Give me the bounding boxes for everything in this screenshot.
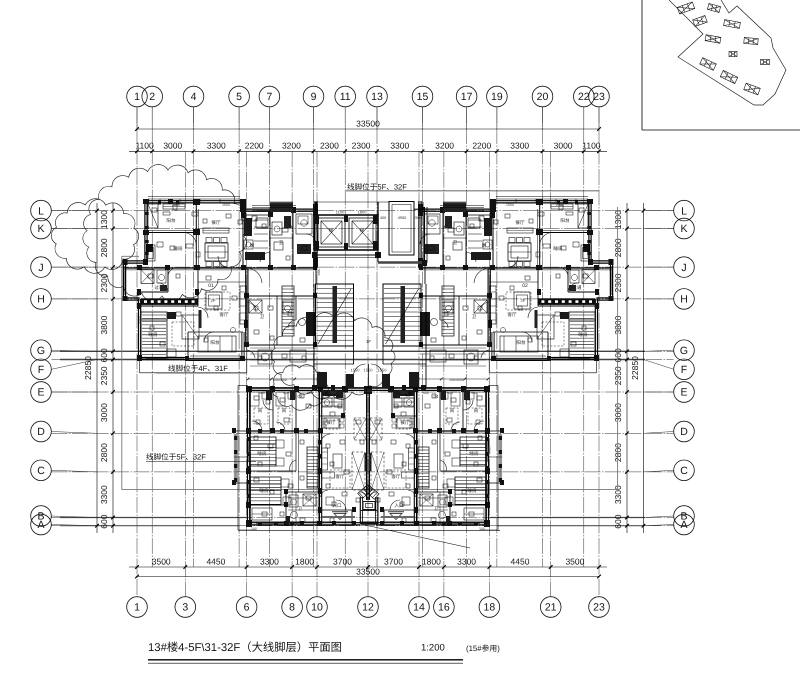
svg-text:D: D xyxy=(37,426,45,438)
svg-text:3300: 3300 xyxy=(457,556,476,566)
svg-text:13: 13 xyxy=(371,91,383,103)
svg-text:3200: 3200 xyxy=(282,141,301,151)
svg-text:1800: 1800 xyxy=(487,446,491,454)
svg-text:2F: 2F xyxy=(521,298,526,303)
svg-text:客厅: 客厅 xyxy=(507,312,517,317)
svg-text:1500: 1500 xyxy=(222,203,230,207)
svg-text:卫: 卫 xyxy=(298,506,303,511)
svg-text:2100: 2100 xyxy=(556,203,564,207)
svg-text:客厅: 客厅 xyxy=(335,474,345,479)
svg-text:4450: 4450 xyxy=(511,556,530,566)
svg-text:餐厅: 餐厅 xyxy=(515,220,525,225)
svg-text:900: 900 xyxy=(259,391,265,395)
svg-text:1800: 1800 xyxy=(422,556,441,566)
svg-text:梯: 梯 xyxy=(360,228,365,233)
svg-text:2800: 2800 xyxy=(613,238,623,257)
svg-text:100: 100 xyxy=(479,527,485,531)
svg-text:2300: 2300 xyxy=(352,141,371,151)
svg-text:2350: 2350 xyxy=(613,366,623,385)
svg-text:3000: 3000 xyxy=(613,403,623,422)
svg-text:入口: 入口 xyxy=(332,503,342,508)
svg-text:2: 2 xyxy=(149,91,155,103)
svg-text:3200: 3200 xyxy=(435,141,454,151)
svg-text:C: C xyxy=(680,465,688,477)
svg-text:1500: 1500 xyxy=(328,391,336,395)
svg-text:3000: 3000 xyxy=(554,141,573,151)
svg-text:E: E xyxy=(680,387,687,399)
svg-text:7: 7 xyxy=(266,91,272,103)
svg-text:2350: 2350 xyxy=(99,366,109,385)
svg-text:600: 600 xyxy=(99,514,109,528)
svg-text:K: K xyxy=(680,223,687,235)
svg-text:4: 4 xyxy=(191,91,197,103)
svg-text:400: 400 xyxy=(380,216,386,220)
svg-text:3300: 3300 xyxy=(99,485,109,504)
svg-text:1800: 1800 xyxy=(358,210,368,215)
svg-text:睡房: 睡房 xyxy=(173,246,183,251)
svg-text:睡房: 睡房 xyxy=(467,488,477,493)
svg-text:900: 900 xyxy=(471,391,477,395)
svg-text:睡房: 睡房 xyxy=(148,332,158,337)
svg-text:1800: 1800 xyxy=(247,446,251,454)
svg-text:2300: 2300 xyxy=(320,141,339,151)
svg-text:100x600: 100x600 xyxy=(449,378,463,382)
svg-text:卫: 卫 xyxy=(434,506,439,511)
svg-text:1:200: 1:200 xyxy=(421,643,445,654)
svg-text:01: 01 xyxy=(208,283,214,289)
svg-text:1100: 1100 xyxy=(135,141,154,151)
svg-text:17: 17 xyxy=(461,91,473,103)
svg-text:2400: 2400 xyxy=(364,389,372,393)
svg-text:10: 10 xyxy=(311,602,323,614)
svg-text:8: 8 xyxy=(289,602,295,614)
svg-text:22850: 22850 xyxy=(630,356,640,380)
svg-text:入口: 入口 xyxy=(394,503,404,508)
svg-text:厨: 厨 xyxy=(482,243,487,248)
svg-text:A: A xyxy=(37,519,44,531)
svg-text:A: A xyxy=(680,519,687,531)
svg-text:过道: 过道 xyxy=(154,285,164,290)
svg-text:100: 100 xyxy=(251,527,257,531)
svg-text:3300: 3300 xyxy=(260,556,279,566)
svg-text:睡房: 睡房 xyxy=(257,451,267,456)
svg-text:22: 22 xyxy=(578,91,590,103)
svg-text:11: 11 xyxy=(340,91,351,103)
svg-text:过道: 过道 xyxy=(572,285,582,290)
svg-text:4450: 4450 xyxy=(206,556,225,566)
svg-text:阳台: 阳台 xyxy=(210,340,220,345)
svg-text:9: 9 xyxy=(311,91,317,103)
svg-text:16: 16 xyxy=(438,602,450,614)
svg-text:1300: 1300 xyxy=(613,210,623,229)
svg-text:3700: 3700 xyxy=(384,556,403,566)
svg-text:1500: 1500 xyxy=(506,203,514,207)
svg-text:900: 900 xyxy=(447,391,453,395)
svg-text:600: 600 xyxy=(613,348,623,362)
svg-text:餐厅: 餐厅 xyxy=(400,420,410,425)
svg-text:12: 12 xyxy=(362,602,374,614)
svg-text:H: H xyxy=(680,294,688,306)
svg-text:厨: 厨 xyxy=(250,243,255,248)
svg-text:阳台: 阳台 xyxy=(166,218,176,223)
svg-text:餐厅: 餐厅 xyxy=(326,420,336,425)
svg-text:02: 02 xyxy=(522,283,528,289)
svg-text:2800: 2800 xyxy=(613,443,623,462)
svg-text:6: 6 xyxy=(244,602,250,614)
svg-text:600: 600 xyxy=(423,391,429,395)
svg-text:1100: 1100 xyxy=(582,141,601,151)
svg-text:100x600: 100x600 xyxy=(273,378,287,382)
svg-text:客厅: 客厅 xyxy=(219,312,229,317)
svg-text:3800: 3800 xyxy=(99,315,109,334)
svg-text:14: 14 xyxy=(413,602,425,614)
svg-text:1300: 1300 xyxy=(99,210,109,229)
svg-text:房: 房 xyxy=(258,408,263,413)
svg-text:客厅: 客厅 xyxy=(391,474,401,479)
svg-text:3300: 3300 xyxy=(207,141,226,151)
svg-text:3300: 3300 xyxy=(390,141,409,151)
svg-text:4900: 4900 xyxy=(398,216,406,220)
svg-text:3100: 3100 xyxy=(138,316,142,324)
svg-text:睡房: 睡房 xyxy=(553,246,563,251)
svg-text:E: E xyxy=(37,387,44,399)
svg-text:33500: 33500 xyxy=(356,119,380,129)
svg-text:1200: 1200 xyxy=(315,224,319,232)
svg-text:F: F xyxy=(38,364,44,376)
svg-text:2F: 2F xyxy=(211,298,216,303)
svg-text:23: 23 xyxy=(593,602,605,614)
svg-text:2200: 2200 xyxy=(472,141,491,151)
svg-text:3300: 3300 xyxy=(510,141,529,151)
svg-text:D: D xyxy=(680,426,688,438)
svg-text:G: G xyxy=(680,345,688,357)
svg-text:房: 房 xyxy=(450,408,455,413)
svg-text:卫: 卫 xyxy=(279,240,284,245)
svg-text:(15#参用): (15#参用) xyxy=(466,644,500,653)
svg-text:房: 房 xyxy=(474,408,479,413)
svg-text:1F: 1F xyxy=(366,339,371,344)
svg-text:2800: 2800 xyxy=(99,443,109,462)
svg-text:阳台: 阳台 xyxy=(516,340,526,345)
svg-text:房: 房 xyxy=(282,408,287,413)
svg-text:03: 03 xyxy=(297,394,303,399)
svg-text:1: 1 xyxy=(134,91,140,103)
svg-text:睡房: 睡房 xyxy=(578,332,588,337)
svg-text:3500: 3500 xyxy=(565,556,584,566)
svg-text:2100: 2100 xyxy=(172,203,180,207)
svg-text:#ML: #ML xyxy=(317,269,321,276)
svg-text:F: F xyxy=(681,364,687,376)
svg-text:K: K xyxy=(37,223,44,235)
svg-text:3300: 3300 xyxy=(613,485,623,504)
svg-text:线脚位于4F、31F: 线脚位于4F、31F xyxy=(168,364,228,373)
svg-text:2200: 2200 xyxy=(245,141,264,151)
svg-text:600: 600 xyxy=(613,514,623,528)
svg-text:G: G xyxy=(37,345,45,357)
svg-text:睡房: 睡房 xyxy=(469,451,479,456)
svg-text:18: 18 xyxy=(484,602,496,614)
svg-text:梯: 梯 xyxy=(329,228,334,233)
svg-text:卫: 卫 xyxy=(453,240,458,245)
svg-text:15: 15 xyxy=(417,91,429,103)
svg-text:阳台: 阳台 xyxy=(560,218,570,223)
svg-text:600: 600 xyxy=(307,391,313,395)
svg-text:1100: 1100 xyxy=(336,210,345,215)
svg-text:睡房: 睡房 xyxy=(259,488,269,493)
svg-text:900: 900 xyxy=(283,391,289,395)
svg-text:22850: 22850 xyxy=(83,356,93,380)
svg-text:3700: 3700 xyxy=(333,556,352,566)
svg-text:卫: 卫 xyxy=(472,314,477,319)
svg-text:23: 23 xyxy=(593,91,605,103)
svg-text:04: 04 xyxy=(433,394,439,399)
svg-text:H: H xyxy=(37,294,45,306)
svg-text:L: L xyxy=(681,205,687,217)
svg-text:J: J xyxy=(681,262,686,274)
svg-text:2000: 2000 xyxy=(414,216,422,220)
svg-text:20: 20 xyxy=(537,91,549,103)
svg-text:3800: 3800 xyxy=(613,315,623,334)
svg-text:19: 19 xyxy=(491,91,503,103)
svg-text:餐厅: 餐厅 xyxy=(211,220,221,225)
svg-text:1800: 1800 xyxy=(295,556,314,566)
svg-text:卫: 卫 xyxy=(260,314,265,319)
svg-text:3: 3 xyxy=(182,602,188,614)
svg-text:3000: 3000 xyxy=(99,403,109,422)
svg-text:2300: 2300 xyxy=(613,273,623,292)
svg-text:33500: 33500 xyxy=(356,566,380,576)
svg-text:2800: 2800 xyxy=(99,238,109,257)
svg-text:线脚位于5F、32F: 线脚位于5F、32F xyxy=(146,452,206,461)
svg-text:L: L xyxy=(38,205,44,217)
svg-text:13#楼4-5F\31-32F（大线脚层）平面图: 13#楼4-5F\31-32F（大线脚层）平面图 xyxy=(148,641,342,654)
svg-text:线脚位于5F、32F: 线脚位于5F、32F xyxy=(347,182,407,191)
svg-text:3500: 3500 xyxy=(152,556,171,566)
svg-text:5: 5 xyxy=(236,91,242,103)
svg-text:1: 1 xyxy=(134,602,140,614)
svg-text:J: J xyxy=(38,262,43,274)
svg-text:1500: 1500 xyxy=(400,391,408,395)
svg-text:3000: 3000 xyxy=(163,141,182,151)
svg-text:C: C xyxy=(37,465,45,477)
svg-text:600: 600 xyxy=(99,348,109,362)
svg-text:21: 21 xyxy=(545,602,557,614)
